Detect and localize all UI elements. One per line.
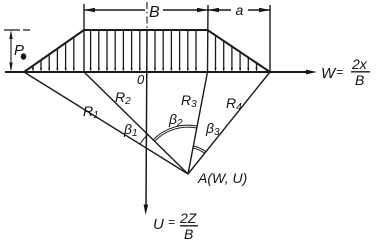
svg-text:a: a bbox=[236, 2, 244, 18]
wire vertical U axis bbox=[146, 30, 147, 206]
arc beta3 double bbox=[193, 148, 205, 153]
line R3 bbox=[188, 72, 208, 174]
svg-text:B: B bbox=[149, 4, 160, 21]
svg-text:=: = bbox=[336, 65, 343, 79]
arrowhead a right bbox=[259, 8, 270, 12]
line R2 bbox=[84, 72, 188, 174]
arc beta2 double bbox=[155, 127, 197, 141]
arc beta1 bbox=[140, 134, 148, 144]
tick middle B/a extension bbox=[207, 5, 210, 72]
svg-text:A(W, U): A(W, U) bbox=[197, 170, 247, 186]
wire vertical center line (dash-dot above load) bbox=[146, 2, 148, 30]
svg-text:B: B bbox=[184, 226, 193, 242]
svg-text:W: W bbox=[321, 65, 337, 82]
arrowhead a left bbox=[208, 8, 219, 12]
dimension P0 top dashed tick bbox=[4, 29, 30, 31]
svg-text:2Z: 2Z bbox=[179, 210, 197, 226]
svg-text:=: = bbox=[168, 215, 175, 229]
svg-text:U: U bbox=[153, 216, 164, 233]
tick left B extension bbox=[83, 4, 85, 72]
line R4 bbox=[188, 72, 270, 174]
arrowhead B left bbox=[84, 8, 95, 12]
dimension line B bbox=[84, 9, 145, 11]
arrowhead B right bbox=[197, 8, 208, 12]
svg-text:2x: 2x bbox=[351, 56, 368, 72]
svg-text:0: 0 bbox=[137, 72, 145, 87]
load outline trapezoid bbox=[24, 30, 270, 72]
svg-text:B: B bbox=[355, 72, 364, 88]
arrowhead W axis bbox=[306, 70, 317, 75]
arrowhead P0 up bbox=[9, 30, 12, 39]
dimension line P0 bbox=[10, 32, 12, 70]
arrowhead U axis bbox=[144, 205, 149, 216]
dimension line a bbox=[208, 9, 231, 11]
hatch load arrows bbox=[32, 30, 258, 72]
arrowhead P0 down bbox=[9, 63, 12, 72]
tick right a extension bbox=[269, 5, 271, 72]
wire horizontal W axis bbox=[5, 71, 309, 73]
line R1 bbox=[24, 72, 188, 174]
